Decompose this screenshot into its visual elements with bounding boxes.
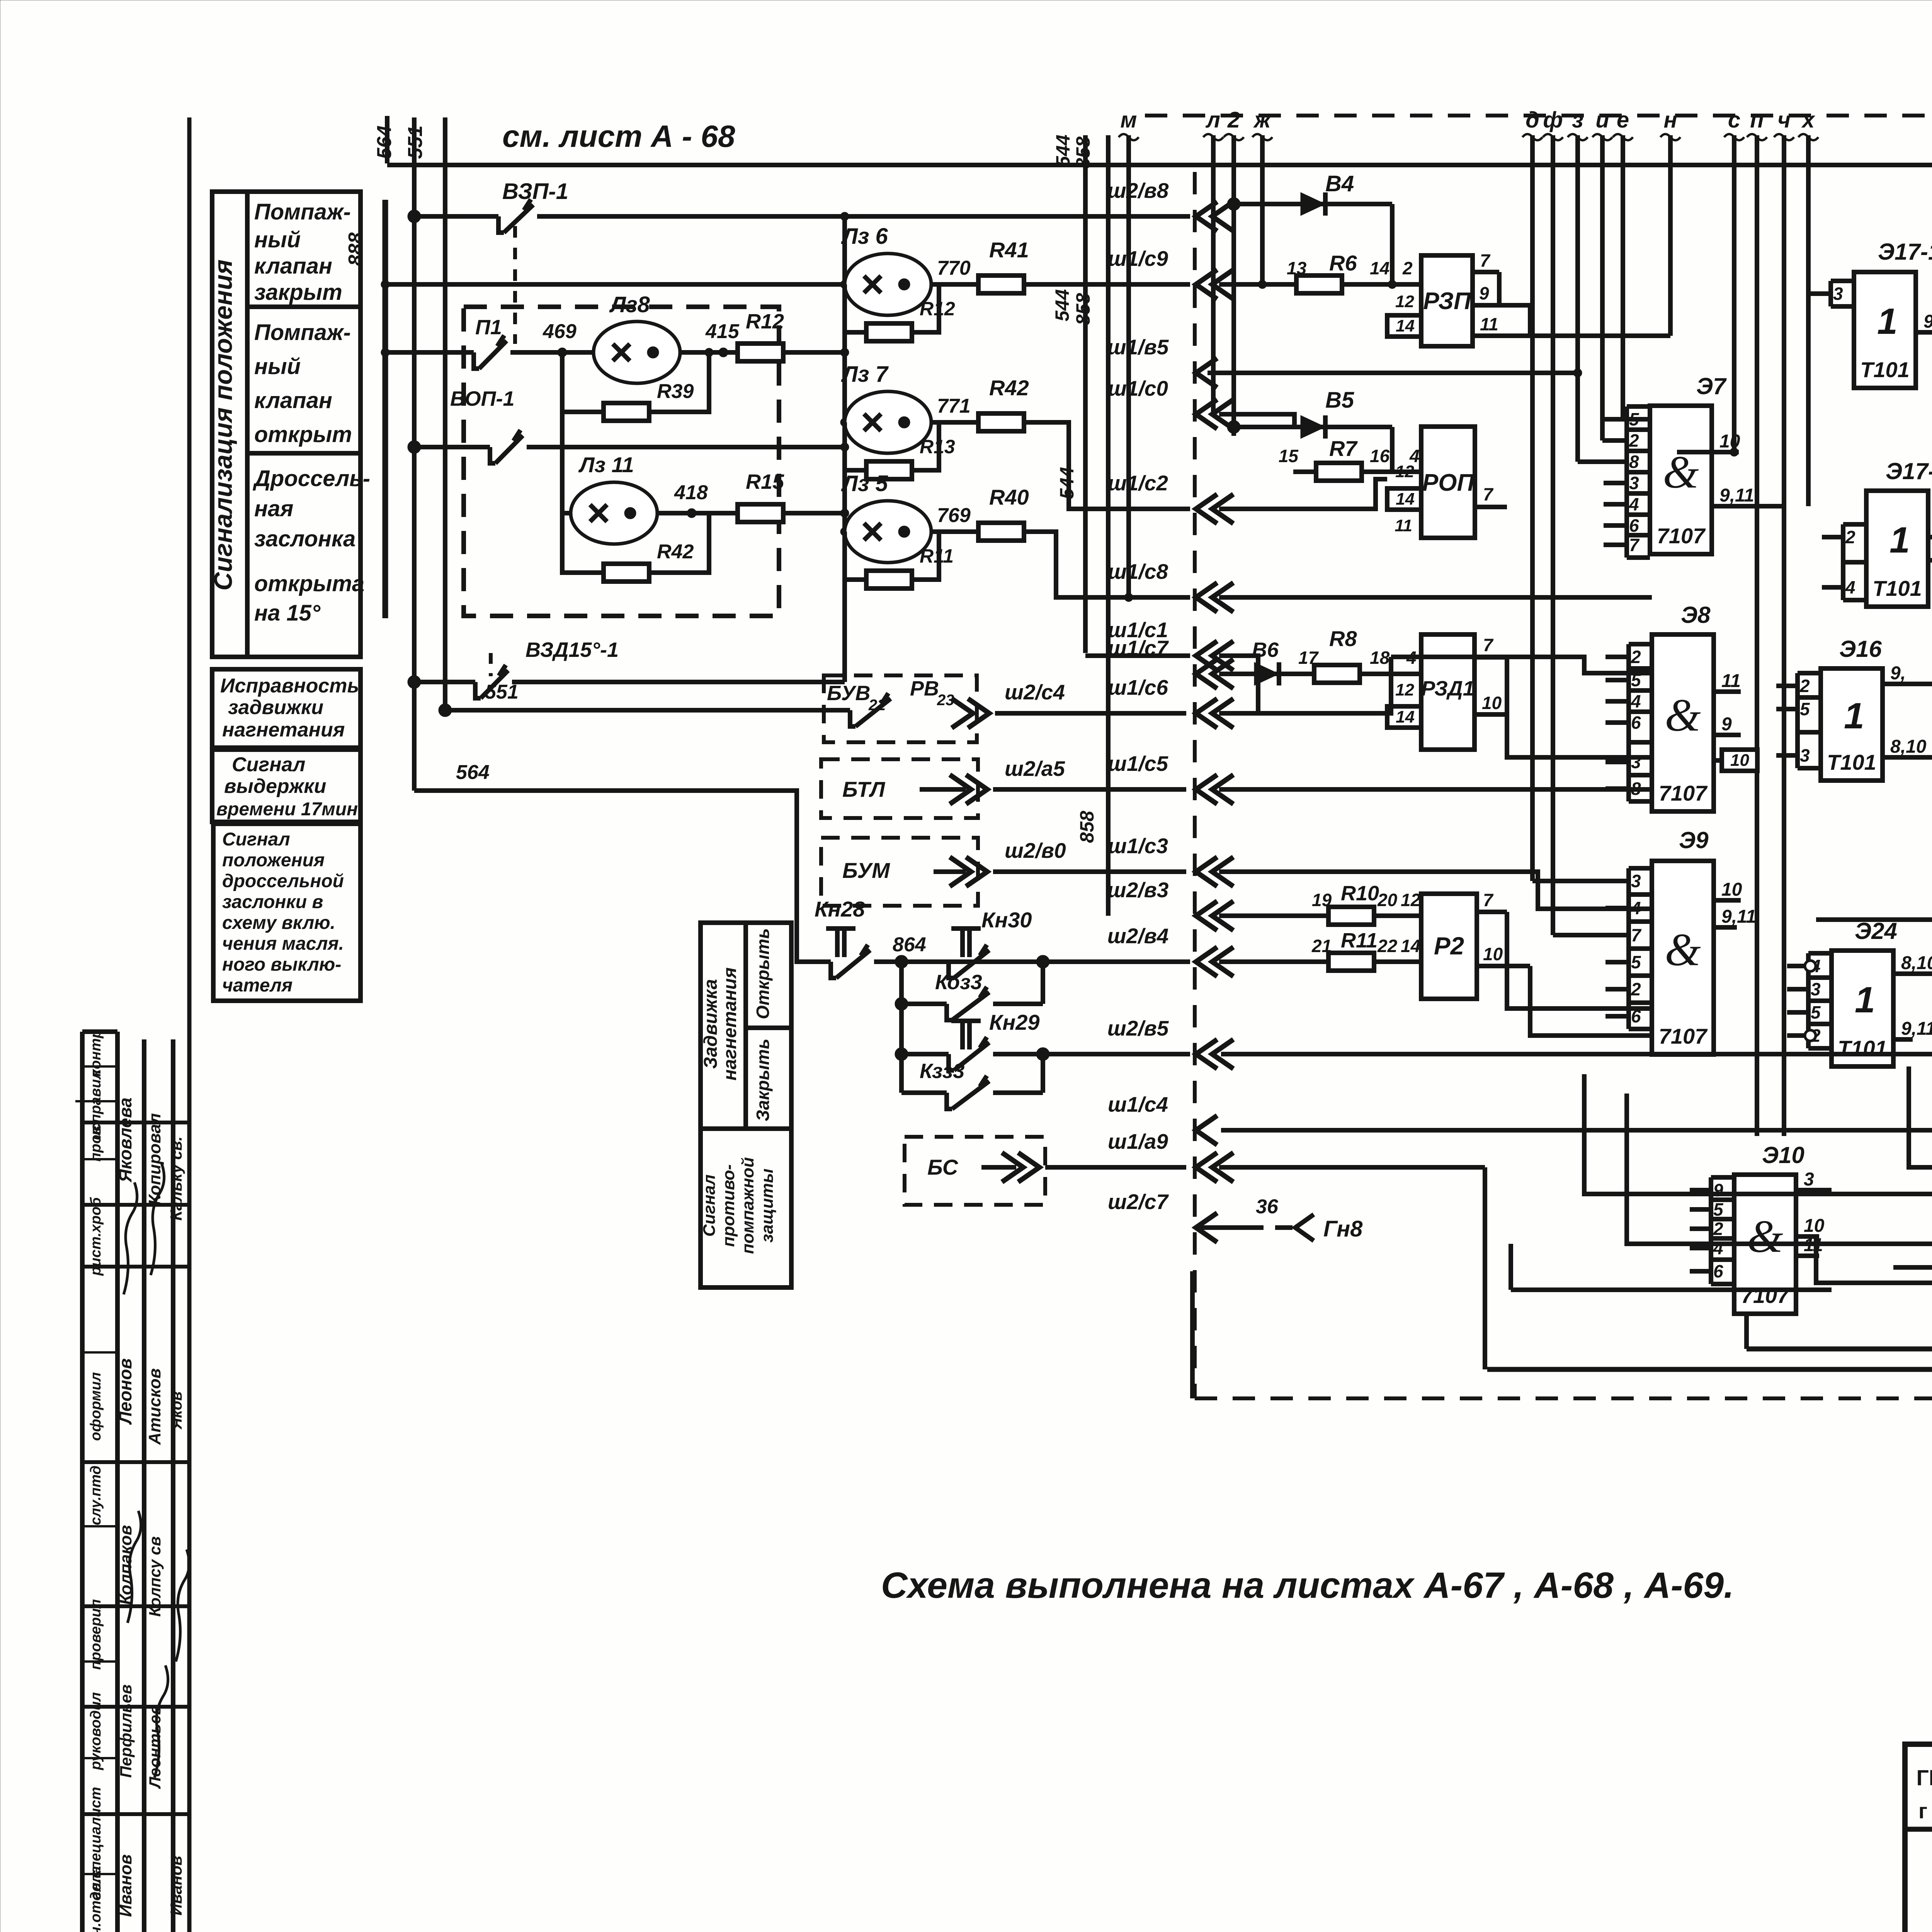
svg-text:3: 3: [1800, 745, 1810, 765]
svg-text:РВ: РВ: [910, 677, 939, 700]
svg-text:6: 6: [1631, 713, 1641, 733]
svg-text:R8: R8: [1329, 626, 1357, 651]
svg-text:R39: R39: [657, 380, 694, 403]
svg-text:5: 5: [1631, 952, 1641, 972]
svg-text:ж: ж: [1253, 107, 1272, 133]
svg-text:3: 3: [1833, 284, 1843, 304]
svg-text:7: 7: [1631, 925, 1642, 945]
svg-text:13: 13: [1287, 258, 1307, 278]
svg-text:П1: П1: [475, 316, 502, 339]
svg-text:Яковлева: Яковлева: [115, 1097, 135, 1182]
svg-text:Т101: Т101: [1860, 357, 1910, 382]
svg-text:11: 11: [1395, 516, 1412, 535]
svg-text:клапан: клапан: [254, 253, 332, 279]
svg-text:6: 6: [1629, 515, 1639, 536]
svg-text:н: н: [1663, 107, 1677, 133]
svg-text:ш1/с4: ш1/с4: [1108, 1092, 1168, 1116]
svg-text:ВЗД15°-1: ВЗД15°-1: [526, 638, 619, 662]
svg-text:и: и: [1595, 107, 1609, 133]
svg-text:БТЛ: БТЛ: [842, 777, 886, 801]
svg-text:Кн28: Кн28: [815, 897, 865, 921]
svg-text:3: 3: [1631, 871, 1641, 891]
svg-text:ш1/с6: ш1/с6: [1108, 675, 1168, 699]
svg-text:РЗП: РЗП: [1423, 288, 1471, 315]
svg-text:Т101: Т101: [1838, 1036, 1887, 1060]
svg-text:слу.птд: слу.птд: [88, 1466, 104, 1526]
svg-text:Атисков: Атисков: [145, 1368, 164, 1445]
svg-text:с: с: [1728, 107, 1740, 133]
svg-text:R12: R12: [746, 310, 784, 333]
svg-text:6: 6: [1713, 1261, 1723, 1281]
svg-text:В5: В5: [1325, 388, 1354, 413]
svg-text:Перфильев: Перфильев: [117, 1684, 135, 1778]
svg-text:ч: ч: [1777, 107, 1791, 133]
svg-text:R13: R13: [920, 436, 955, 457]
svg-text:469: 469: [543, 320, 577, 343]
svg-text:10: 10: [1719, 431, 1740, 452]
svg-text:ш2/с4: ш2/с4: [1005, 680, 1065, 704]
svg-text:36: 36: [1256, 1196, 1279, 1218]
svg-text:пров: пров: [88, 1126, 104, 1162]
svg-text:Э7: Э7: [1696, 373, 1727, 399]
svg-text:3: 3: [1811, 979, 1821, 999]
svg-text:ного выклю-: ного выклю-: [222, 954, 341, 975]
svg-text:Исправность: Исправность: [220, 675, 359, 697]
svg-text:5: 5: [1713, 1199, 1724, 1219]
svg-text:ш1/с3: ш1/с3: [1108, 834, 1168, 858]
svg-text:В4: В4: [1325, 171, 1354, 196]
svg-text:R42: R42: [657, 541, 694, 563]
svg-text:858: 858: [1076, 811, 1098, 843]
svg-text:5: 5: [1800, 699, 1810, 719]
svg-text:рист.хроб: рист.хроб: [88, 1197, 104, 1276]
svg-text:12: 12: [1395, 292, 1414, 311]
svg-text:РОП: РОП: [1422, 469, 1475, 496]
svg-text:Э16: Э16: [1839, 636, 1882, 662]
svg-text:R42: R42: [989, 376, 1029, 400]
svg-text:ш1/с2: ш1/с2: [1108, 471, 1168, 495]
svg-text:2: 2: [1631, 647, 1641, 667]
svg-text:задвижки: задвижки: [228, 696, 323, 719]
svg-text:БУВ: БУВ: [827, 682, 870, 705]
svg-text:4: 4: [1845, 577, 1855, 597]
svg-text:14: 14: [1401, 936, 1420, 956]
svg-text:помпажной: помпажной: [738, 1157, 757, 1254]
svg-text:418: 418: [674, 481, 708, 504]
svg-text:проверил: проверил: [88, 1599, 104, 1670]
svg-text:9: 9: [1721, 714, 1732, 735]
svg-text:15: 15: [1279, 446, 1299, 466]
svg-text:ш1/с0: ш1/с0: [1108, 376, 1168, 400]
svg-text:Лз 7: Лз 7: [841, 362, 889, 387]
svg-text:ш1/с9: ш1/с9: [1108, 247, 1168, 270]
svg-text:клапан: клапан: [254, 388, 332, 413]
svg-text:нагнетания: нагнетания: [222, 719, 345, 741]
svg-text:Э24: Э24: [1855, 918, 1897, 944]
svg-text:г Ростов-на-Дону 1976г.: г Ростов-на-Дону 1976г.: [1918, 1799, 1932, 1823]
svg-text:см. лист А - 68: см. лист А - 68: [502, 119, 735, 153]
svg-text:ВОП-1: ВОП-1: [450, 387, 515, 410]
svg-text:Т101: Т101: [1872, 576, 1922, 600]
svg-text:11: 11: [1721, 671, 1741, 691]
svg-text:Сигнал: Сигнал: [222, 829, 290, 850]
svg-text:12: 12: [1395, 680, 1414, 699]
svg-text:770: 770: [937, 257, 971, 279]
svg-text:10: 10: [1721, 879, 1742, 900]
svg-text:4: 4: [1713, 1238, 1723, 1258]
svg-text:9: 9: [1479, 283, 1489, 303]
svg-text:п: п: [1750, 107, 1764, 133]
svg-text:12: 12: [1401, 890, 1421, 910]
svg-text:9,11: 9,11: [1721, 906, 1756, 927]
svg-text:2: 2: [1227, 107, 1240, 133]
svg-text:х: х: [1801, 107, 1816, 133]
svg-text:ВЗП-1: ВЗП-1: [502, 179, 568, 204]
svg-text:схему вклю.: схему вклю.: [222, 913, 335, 933]
svg-text:Лз 6: Лз 6: [841, 224, 888, 249]
svg-text:10: 10: [1804, 1216, 1825, 1236]
svg-text:544: 544: [1051, 289, 1073, 321]
svg-text:ш1/с5: ш1/с5: [1108, 752, 1168, 776]
svg-text:7: 7: [1629, 535, 1640, 555]
svg-text:ш1/в5: ш1/в5: [1107, 335, 1169, 359]
svg-text:Кн29: Кн29: [989, 1010, 1040, 1034]
svg-text:Дроссель-: Дроссель-: [252, 466, 370, 491]
svg-text:864: 864: [893, 934, 926, 956]
svg-text:ная: ная: [254, 496, 293, 521]
svg-text:7107: 7107: [1741, 1283, 1790, 1308]
svg-text:з: з: [1572, 107, 1583, 133]
svg-text:закрыт: закрыт: [254, 280, 342, 305]
svg-text:&: &: [1665, 689, 1701, 741]
svg-text:ш1/а9: ш1/а9: [1108, 1129, 1168, 1153]
svg-text:544: 544: [1056, 467, 1078, 499]
svg-text:Лз 11: Лз 11: [578, 452, 634, 477]
svg-text:1: 1: [1877, 301, 1898, 342]
svg-text:9,: 9,: [1890, 663, 1906, 684]
svg-text:R40: R40: [989, 485, 1029, 509]
svg-text:чателя: чателя: [222, 975, 293, 996]
svg-text:оформил: оформил: [88, 1372, 104, 1441]
svg-text:контр: контр: [88, 1029, 104, 1077]
svg-text:R7: R7: [1329, 436, 1358, 461]
svg-text:18: 18: [1370, 648, 1390, 668]
svg-text:БУМ: БУМ: [842, 858, 890, 883]
svg-text:ный: ный: [254, 227, 301, 252]
svg-text:ш2/с7: ш2/с7: [1108, 1190, 1169, 1214]
svg-text:Схема выполнена на листах: Схема выполнена на листах А-67 , А-68 , …: [881, 1565, 1734, 1606]
svg-text:2: 2: [1402, 258, 1413, 278]
svg-text:2: 2: [1713, 1219, 1723, 1239]
svg-text:Помпаж-: Помпаж-: [254, 320, 351, 345]
svg-text:858: 858: [1072, 136, 1094, 169]
svg-text:&: &: [1747, 1211, 1783, 1262]
svg-text:заслонки в: заслонки в: [222, 892, 323, 912]
svg-text:2: 2: [1629, 430, 1639, 451]
svg-text:Сигнал: Сигнал: [232, 753, 305, 776]
svg-text:10: 10: [1482, 693, 1502, 713]
svg-text:9,11: 9,11: [1901, 1019, 1932, 1039]
svg-text:е: е: [1617, 107, 1629, 133]
svg-text:РЗД1: РЗД1: [1421, 677, 1475, 700]
svg-text:выдержки: выдержки: [224, 775, 326, 798]
svg-text:8,10: 8,10: [1901, 953, 1932, 973]
svg-text:14: 14: [1370, 258, 1389, 278]
svg-text:R41: R41: [989, 238, 1029, 262]
svg-text:ш2/в0: ш2/в0: [1005, 838, 1066, 862]
svg-text:2: 2: [1631, 979, 1641, 999]
svg-text:открыт: открыт: [254, 422, 352, 447]
svg-text:1: 1: [1844, 696, 1864, 736]
svg-text:дроссельной: дроссельной: [222, 871, 344, 891]
svg-text:9,11: 9,11: [1923, 311, 1932, 332]
svg-text:16: 16: [1370, 446, 1390, 466]
svg-text:7107: 7107: [1657, 524, 1706, 548]
svg-text:ш2/в3: ш2/в3: [1107, 878, 1169, 902]
svg-text:551: 551: [404, 126, 427, 159]
svg-text:на 15°: на 15°: [254, 600, 321, 626]
svg-text:Лз 5: Лз 5: [841, 471, 888, 496]
svg-text:7: 7: [1480, 250, 1491, 270]
svg-text:3: 3: [1804, 1169, 1814, 1190]
svg-text:8: 8: [1631, 779, 1641, 799]
svg-text:ш1/с8: ш1/с8: [1108, 560, 1168, 583]
svg-text:7107: 7107: [1659, 1024, 1708, 1048]
svg-text:Открыть: Открыть: [753, 928, 773, 1019]
svg-text:3: 3: [1631, 752, 1641, 772]
svg-text:10: 10: [1483, 944, 1503, 964]
svg-text:Э9: Э9: [1679, 827, 1709, 853]
svg-text:д: д: [1526, 107, 1539, 133]
svg-text:Т101: Т101: [1827, 750, 1876, 774]
svg-text:4: 4: [1629, 494, 1639, 514]
svg-text:22: 22: [1377, 936, 1398, 956]
svg-text:R15: R15: [746, 470, 784, 493]
svg-text:564: 564: [456, 761, 490, 784]
svg-text:Э8: Э8: [1681, 602, 1711, 628]
svg-text:Иванов: Иванов: [116, 1854, 135, 1917]
svg-text:Леонов: Леонов: [115, 1358, 135, 1425]
svg-text:R11: R11: [920, 545, 954, 567]
svg-text:10: 10: [1730, 751, 1749, 770]
svg-text:17: 17: [1298, 648, 1319, 668]
svg-text:R6: R6: [1329, 251, 1357, 275]
svg-text:нач.отдела: нач.отдела: [88, 1866, 104, 1932]
svg-text:&: &: [1665, 924, 1701, 975]
svg-text:Иванов: Иванов: [167, 1856, 185, 1916]
svg-text:БС: БС: [927, 1155, 959, 1179]
svg-text:ф: ф: [1543, 107, 1563, 133]
svg-text:769: 769: [937, 504, 971, 527]
svg-text:5: 5: [1811, 1002, 1821, 1022]
svg-text:2: 2: [1799, 676, 1810, 696]
svg-text:564: 564: [373, 126, 396, 159]
svg-text:2: 2: [1845, 527, 1855, 547]
svg-text:1: 1: [1855, 980, 1875, 1020]
svg-text:888: 888: [345, 233, 367, 266]
svg-text:4: 4: [1631, 691, 1641, 711]
svg-text:7107: 7107: [1659, 781, 1708, 805]
svg-text:Э17-2: Э17-2: [1886, 458, 1932, 484]
svg-text:Помпаж-: Помпаж-: [254, 199, 351, 224]
svg-text:551: 551: [485, 681, 519, 703]
svg-text:чения масля.: чения масля.: [222, 934, 344, 954]
svg-text:7: 7: [1483, 484, 1494, 504]
svg-text:8: 8: [1629, 452, 1639, 472]
svg-text:противо-: противо-: [719, 1164, 738, 1247]
svg-text:9: 9: [1713, 1180, 1723, 1200]
svg-text:л: л: [1205, 107, 1220, 133]
svg-text:Сигнализация положения: Сигнализация положения: [209, 259, 237, 590]
svg-text:Задвижка: Задвижка: [701, 979, 721, 1069]
svg-text:Закрыть: Закрыть: [753, 1039, 773, 1121]
svg-text:защиты: защиты: [758, 1168, 777, 1243]
svg-text:771: 771: [937, 395, 971, 417]
svg-text:времени 17мин: времени 17мин: [216, 799, 358, 820]
svg-text:ш2/в8: ш2/в8: [1107, 179, 1169, 202]
svg-text:R11: R11: [1341, 929, 1378, 952]
svg-text:14: 14: [1396, 490, 1415, 509]
svg-text:9,11: 9,11: [1719, 485, 1754, 506]
svg-text:20: 20: [1377, 890, 1398, 910]
svg-text:544: 544: [1052, 134, 1074, 167]
svg-text:Гн8: Гн8: [1323, 1216, 1363, 1242]
svg-text:положения: положения: [222, 850, 325, 871]
svg-text:1: 1: [1889, 520, 1910, 561]
svg-text:ш2/а5: ш2/а5: [1005, 757, 1065, 781]
svg-text:руководил: руководил: [88, 1692, 104, 1770]
svg-text:Кзз3: Кзз3: [920, 1060, 964, 1083]
svg-text:8,10: 8,10: [1890, 736, 1927, 757]
svg-text:нагнетания: нагнетания: [720, 968, 740, 1081]
svg-text:Э17-1: Э17-1: [1878, 239, 1932, 265]
svg-text:6: 6: [1631, 1006, 1641, 1026]
svg-text:5: 5: [1631, 670, 1641, 690]
svg-text:415: 415: [705, 320, 740, 343]
svg-text:21: 21: [1311, 936, 1332, 956]
svg-text:ш2/в5: ш2/в5: [1107, 1016, 1169, 1040]
svg-text:ш2/в4: ш2/в4: [1107, 924, 1169, 948]
svg-text:14: 14: [1396, 316, 1415, 335]
svg-text:3: 3: [1629, 473, 1639, 493]
svg-text:Э10: Э10: [1762, 1142, 1804, 1168]
svg-text:Кальку св.: Кальку св.: [167, 1136, 185, 1221]
svg-text:Коз3: Коз3: [935, 971, 982, 994]
svg-text:открыта: открыта: [254, 571, 364, 596]
svg-text:м: м: [1121, 107, 1137, 133]
svg-text:7: 7: [1483, 635, 1494, 655]
svg-text:R12: R12: [920, 298, 955, 320]
svg-text:4: 4: [1631, 898, 1641, 918]
svg-text:Кн30: Кн30: [981, 908, 1032, 932]
svg-text:В6: В6: [1252, 638, 1279, 662]
svg-text:R10: R10: [1341, 882, 1379, 905]
svg-text:14: 14: [1396, 707, 1415, 726]
svg-text:858: 858: [1072, 293, 1094, 325]
svg-text:19: 19: [1312, 890, 1332, 910]
svg-text:11: 11: [1480, 314, 1498, 334]
svg-text:7: 7: [1483, 890, 1494, 910]
svg-text:ный: ный: [254, 354, 301, 379]
svg-text:ГИПРОСТРОЙДОРМАШ: ГИПРОСТРОЙДОРМАШ: [1916, 1765, 1932, 1790]
svg-text:заслонка: заслонка: [254, 526, 355, 551]
svg-text:12: 12: [1395, 462, 1414, 481]
svg-text:Р2: Р2: [1434, 932, 1464, 960]
svg-text:Лз8: Лз8: [609, 292, 650, 317]
svg-text:22: 22: [868, 697, 886, 714]
svg-text:Яков: Яков: [168, 1391, 185, 1430]
svg-text:Сигнал: Сигнал: [700, 1174, 719, 1236]
svg-text:Колпсу св: Колпсу св: [146, 1536, 164, 1617]
